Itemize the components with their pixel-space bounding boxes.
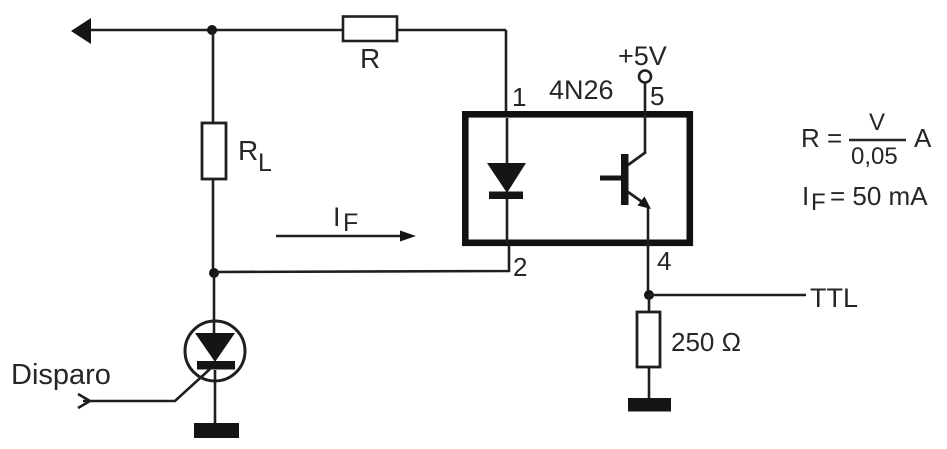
svg-text:L: L: [258, 149, 272, 177]
svg-text:5: 5: [650, 81, 664, 111]
ground left: [194, 423, 239, 438]
node junction top: [207, 25, 217, 35]
resistor RL: [202, 123, 272, 179]
thyristor SCR: [185, 321, 245, 381]
svg-text:0,05: 0,05: [851, 143, 898, 170]
svg-text:= 50 mA: = 50 mA: [830, 181, 928, 211]
ground right: [628, 398, 671, 412]
current IF label: [333, 202, 358, 237]
svg-text:R =: R =: [801, 123, 842, 153]
wire SCR cathode to ground: [214, 370, 217, 424]
wire node to pin 2: [214, 246, 509, 272]
wire LED anode inside box: [506, 118, 509, 165]
svg-text:A: A: [914, 123, 932, 153]
wire LED cathode to pin 2: [506, 199, 509, 243]
svg-text:250 Ω: 250 Ω: [671, 327, 741, 357]
wire emitter to pin 4: [647, 207, 650, 295]
terminal circle +5V: [639, 71, 651, 83]
svg-text:TTL: TTL: [810, 283, 858, 313]
current IF arrow: [276, 231, 416, 242]
formula R equation: [801, 109, 932, 170]
wire node to TTL: [649, 294, 806, 297]
wire node to 250 ohm resistor: [648, 295, 651, 313]
arrowhead left output: [71, 18, 91, 44]
gate terminal open arrow: [78, 394, 90, 408]
svg-text:I: I: [333, 202, 341, 232]
node junction lower left: [209, 268, 219, 278]
wire left vertical from node to RL: [212, 30, 215, 123]
svg-text:1: 1: [512, 82, 526, 112]
wire 250 ohm to ground: [648, 367, 651, 400]
wire SCR gate: [83, 369, 210, 401]
svg-text:V: V: [869, 109, 885, 136]
svg-text:Disparo: Disparo: [11, 359, 111, 391]
wire node to SCR anode: [213, 273, 216, 334]
svg-text:4: 4: [657, 246, 671, 276]
svg-text:I: I: [802, 181, 809, 211]
wire top horizontal bus: [84, 29, 506, 32]
wire +5V to collector: [644, 83, 647, 153]
svg-text:+5V: +5V: [618, 41, 667, 71]
svg-text:4N26: 4N26: [549, 75, 614, 105]
op-amp U1 optocoupler 4N26 box: [465, 114, 690, 243]
svg-text:2: 2: [513, 252, 527, 282]
formula IF equation: [802, 181, 928, 216]
wire corner to pin 1: [505, 30, 508, 114]
node junction pin4: [644, 290, 654, 300]
transistor Q1 phototransistor: [600, 152, 651, 209]
diode D1 LED of optocoupler: [487, 163, 526, 199]
svg-text:F: F: [811, 189, 826, 216]
svg-text:R: R: [238, 135, 258, 166]
svg-text:F: F: [343, 209, 358, 237]
resistor R: [343, 17, 397, 75]
wire RL to lower node: [212, 179, 215, 274]
resistor 250 ohm: [637, 312, 741, 367]
svg-text:R: R: [360, 43, 380, 74]
